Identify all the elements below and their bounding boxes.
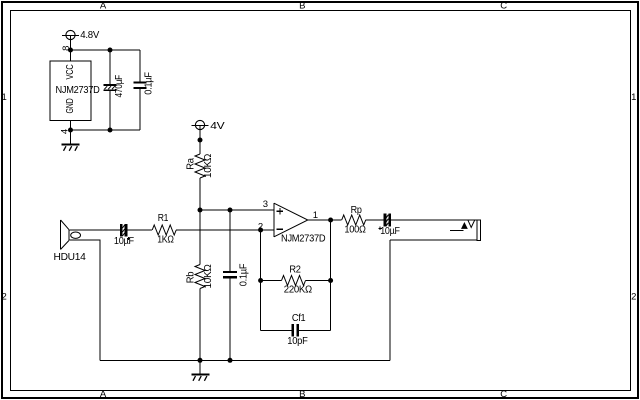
- svg-text:100Ω: 100Ω: [344, 225, 366, 236]
- svg-text:10µF: 10µF: [114, 236, 134, 247]
- svg-text:8: 8: [61, 46, 72, 51]
- junction pin4 node: [68, 128, 73, 133]
- resistor R2 220K: [261, 264, 331, 295]
- svg-text:A: A: [100, 389, 107, 400]
- junction: [198, 358, 203, 363]
- svg-text:2: 2: [2, 292, 7, 303]
- power supply 4V: [192, 120, 226, 140]
- svg-text:C: C: [500, 389, 507, 400]
- junction feedback node: [258, 228, 263, 233]
- ground: [62, 130, 80, 151]
- svg-text:Cf1: Cf1: [292, 313, 306, 324]
- resistor R1 1K: [152, 213, 176, 246]
- wire ground rail bottom: [100, 359, 390, 361]
- wire ground rail: [71, 129, 141, 131]
- capacitor 0.1uF power: [134, 50, 155, 130]
- power supply 4.8V: [62, 30, 100, 50]
- op-amp U1 power block NJM2737D: [50, 61, 100, 121]
- junction: [228, 358, 233, 363]
- wire bias chain: [199, 210, 201, 265]
- svg-text:Ra: Ra: [186, 158, 197, 170]
- svg-text:4.8V: 4.8V: [80, 30, 99, 41]
- junction: [328, 278, 333, 283]
- capacitor 10uF output: [379, 214, 400, 237]
- wire mic top lead: [69, 229, 120, 231]
- wire to pin 2: [176, 229, 274, 231]
- junction bypass cap: [228, 208, 233, 213]
- svg-text:4V: 4V: [210, 121, 225, 132]
- wire jack return: [389, 240, 391, 360]
- svg-text:10KΩ: 10KΩ: [203, 264, 214, 289]
- svg-text:R2: R2: [289, 264, 301, 275]
- junction pin3 node: [198, 208, 203, 213]
- junction: [108, 48, 113, 53]
- capacitor 470uF: [104, 50, 125, 130]
- svg-text:Rb: Rb: [186, 271, 197, 283]
- wire pin4: [70, 120, 72, 130]
- phone jack output: [390, 220, 481, 241]
- svg-text:GND: GND: [65, 98, 76, 113]
- capacitor 0.1uF bypass: [223, 210, 250, 360]
- wire feedback left: [260, 230, 262, 331]
- svg-text:B: B: [299, 389, 305, 400]
- svg-text:10KΩ: 10KΩ: [203, 153, 214, 178]
- resistor Rp 100: [342, 205, 384, 236]
- resistor Rb 10K: [186, 264, 214, 361]
- svg-text:R1: R1: [158, 213, 169, 224]
- wire: [127, 229, 152, 231]
- svg-text:220KΩ: 220KΩ: [284, 285, 313, 296]
- svg-text:B: B: [299, 0, 305, 11]
- wire to pin 3: [200, 209, 274, 211]
- svg-text:0.1µF: 0.1µF: [239, 264, 250, 287]
- svg-text:NJM2737D: NJM2737D: [281, 233, 325, 244]
- ground: [192, 360, 210, 381]
- capacitor 10uF input: [114, 224, 134, 247]
- wire VCC rail top: [71, 49, 141, 51]
- wire output: [308, 219, 342, 221]
- resistor Ra 10K: [186, 140, 214, 210]
- svg-text:470µF: 470µF: [114, 75, 125, 98]
- junction output node: [328, 218, 333, 223]
- junction: [108, 128, 113, 133]
- svg-text:NJM2737D: NJM2737D: [56, 85, 100, 96]
- svg-text:1KΩ: 1KΩ: [157, 234, 174, 245]
- op-amp U1 NJM2737D: [274, 203, 325, 244]
- wire to jack: [391, 219, 477, 221]
- svg-text:VCC: VCC: [65, 64, 76, 79]
- svg-text:1: 1: [2, 92, 7, 103]
- svg-text:HDU14: HDU14: [54, 252, 87, 263]
- svg-text:10pF: 10pF: [287, 336, 307, 347]
- node VCC junction: [68, 48, 73, 53]
- svg-text:2: 2: [631, 292, 636, 303]
- svg-text:Rp: Rp: [351, 205, 363, 216]
- wire mic bottom lead: [69, 240, 100, 360]
- svg-text:C: C: [500, 0, 507, 11]
- junction: [258, 278, 263, 283]
- wire feedback right: [330, 220, 332, 331]
- wire pin8: [70, 50, 72, 61]
- capacitor Cf1 10pF: [261, 313, 331, 347]
- microphone HDU14: [54, 220, 87, 263]
- junction: [198, 138, 203, 143]
- svg-text:A: A: [100, 0, 107, 11]
- svg-text:10µF: 10µF: [380, 226, 400, 237]
- svg-text:1: 1: [631, 92, 636, 103]
- svg-text:0.1µF: 0.1µF: [144, 72, 155, 95]
- svg-text:3: 3: [263, 199, 268, 210]
